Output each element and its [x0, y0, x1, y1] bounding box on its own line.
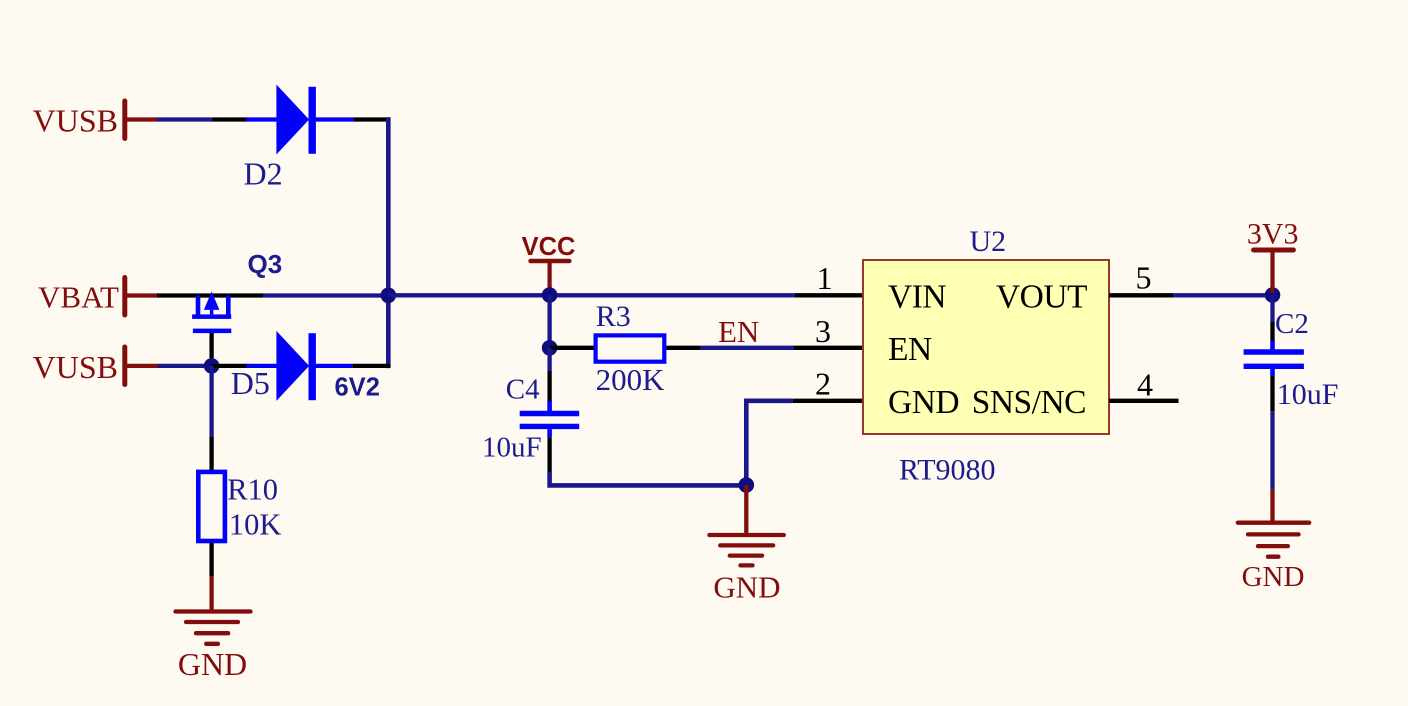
wire segment (black)	[213, 117, 248, 121]
diode D5	[246, 331, 352, 401]
wire C2 bottom pin (black)	[1270, 376, 1274, 411]
wire pin5 to 3V3 junction (navy)	[1173, 293, 1273, 297]
wire Q3 gate down (black)	[209, 333, 213, 362]
port VUSB (top)	[33, 101, 158, 139]
svg-text:GND: GND	[888, 384, 959, 421]
svg-text:GND: GND	[178, 646, 247, 682]
svg-text:6V2: 6V2	[335, 374, 380, 402]
svg-text:10uF: 10uF	[482, 432, 542, 464]
svg-text:R3: R3	[596, 300, 631, 333]
ground GND (right)	[1238, 489, 1309, 593]
port VBAT	[38, 278, 158, 316]
wire vertical from D2 corner to D5 corner (navy)	[386, 117, 391, 368]
svg-text:4: 4	[1137, 367, 1153, 403]
wire C4 top pin (black)	[547, 371, 551, 401]
svg-text:R10: R10	[227, 473, 278, 507]
wire C4 to GND junction (navy)	[550, 472, 747, 485]
svg-text:3V3: 3V3	[1247, 218, 1299, 251]
wire IC pin3 (black)	[794, 346, 863, 350]
diode D2	[246, 85, 353, 155]
node junction gate/VUSB/R10	[204, 358, 220, 374]
capacitor C4	[520, 401, 580, 438]
node junction main bus	[381, 288, 397, 304]
svg-text:5: 5	[1136, 260, 1152, 296]
wire R3 to EN (black)	[666, 346, 700, 350]
wire C4 bottom pin (black)	[547, 437, 551, 472]
svg-text:VCC: VCC	[522, 233, 576, 261]
port VUSB (bottom)	[33, 347, 159, 385]
wire R10 bottom pin (black)	[209, 543, 213, 576]
wire VCC down to R3 junction (navy)	[547, 295, 551, 348]
wire D5 to corner (black)	[352, 364, 390, 368]
wire D2 to corner (black)	[354, 117, 391, 121]
wire VCC junction down to C4 (navy)	[547, 348, 551, 371]
wire IC pin2 (black)	[792, 399, 863, 403]
wire pin2 to GND (navy)	[746, 401, 792, 486]
svg-text:3: 3	[815, 313, 831, 349]
svg-text:10K: 10K	[229, 507, 282, 541]
svg-text:EN: EN	[888, 331, 932, 368]
wire C2 top pin (black)	[1270, 322, 1274, 341]
wire 3V3 junction down (navy)	[1270, 295, 1274, 322]
svg-text:GND: GND	[713, 569, 780, 604]
svg-text:GND: GND	[1242, 561, 1305, 593]
svg-text:EN: EN	[718, 314, 759, 349]
svg-text:1: 1	[817, 260, 833, 296]
svg-text:C2: C2	[1275, 308, 1309, 340]
wire IC pin5 (black)	[1109, 293, 1173, 297]
IC U2 body	[863, 260, 1109, 434]
node GND junction	[739, 477, 755, 493]
ground GND (middle)	[709, 485, 783, 604]
svg-text:VUSB: VUSB	[33, 102, 118, 138]
node VCC junction	[542, 287, 558, 303]
node R3/C4 junction	[542, 340, 558, 356]
capacitor C2	[1244, 341, 1304, 376]
svg-text:D2: D2	[244, 155, 283, 191]
wire VUSB-bottom to junction (navy)	[158, 364, 212, 368]
wire junction to D5 (black)	[212, 364, 248, 368]
svg-text:VUSB: VUSB	[33, 349, 118, 385]
svg-text:200K: 200K	[596, 362, 666, 397]
wire IC pin1 (black)	[795, 293, 863, 297]
wire main bus junction to IC pin1 (navy)	[388, 293, 795, 297]
wire VBAT to Q3 to junction (black)	[157, 293, 263, 297]
power 3V3	[1247, 218, 1299, 294]
svg-text:RT9080: RT9080	[899, 454, 996, 487]
svg-text:VBAT: VBAT	[38, 280, 119, 315]
wire R10 top pin (black)	[209, 437, 213, 471]
svg-text:SNS/NC: SNS/NC	[972, 384, 1086, 421]
wire junction down to R10 (navy)	[209, 366, 213, 437]
svg-text:D5: D5	[231, 365, 270, 401]
transistor Q3	[192, 292, 231, 334]
resistor R3	[596, 335, 665, 361]
wire C2 to GND (navy)	[1270, 411, 1274, 489]
svg-text:VOUT: VOUT	[996, 279, 1087, 316]
wire IC pin4 (black)	[1109, 399, 1179, 403]
svg-text:U2: U2	[970, 225, 1007, 258]
wire VUSB-top to D2 (navy)	[157, 117, 213, 121]
ground GND (left)	[176, 576, 251, 682]
wire Q3 drain to junction (navy)	[263, 293, 388, 297]
resistor R10	[198, 472, 225, 541]
node 3V3 junction	[1265, 287, 1281, 303]
net wire EN (navy)	[701, 346, 794, 350]
svg-text:10uF: 10uF	[1277, 378, 1339, 411]
svg-text:Q3: Q3	[248, 249, 283, 279]
svg-text:C4: C4	[506, 374, 540, 406]
wire junction to R3 (black)	[550, 346, 594, 350]
power VCC	[522, 233, 576, 292]
svg-text:2: 2	[815, 365, 831, 401]
svg-text:VIN: VIN	[888, 279, 946, 316]
